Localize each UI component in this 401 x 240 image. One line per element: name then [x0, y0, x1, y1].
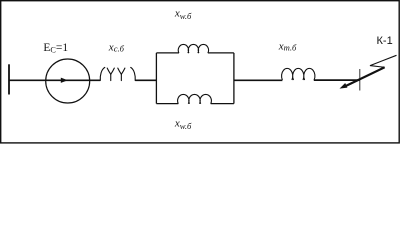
bottom branch wire right: [211, 103, 234, 105]
parallel box right vertical: [233, 53, 235, 104]
lightning bolt thick stroke: [346, 67, 385, 86]
svg-text:К-1: К-1: [377, 35, 393, 47]
border frame: [1, 1, 400, 143]
parallel box left vertical: [155, 53, 157, 104]
bus bar (system): [8, 64, 10, 94]
wire bus to coil1: [9, 79, 100, 81]
top branch wire left: [156, 52, 179, 54]
bolt arrowhead: [340, 83, 348, 89]
wire coil1 to box: [135, 79, 156, 81]
svg-text:ЕС=1: ЕС=1: [43, 42, 68, 55]
bottom branch coil x_w.b: [178, 94, 212, 103]
svg-text:хс.б: хс.б: [108, 41, 125, 53]
reactor coil1 x_c.b: [100, 67, 135, 80]
wire coil3 to fault: [314, 79, 360, 81]
lightning bolt thin zigzag: [370, 55, 397, 67]
svg-text:хт.б: хт.б: [278, 40, 297, 52]
bottom branch wire left: [156, 103, 178, 105]
top branch coil x_w.b: [178, 44, 208, 53]
transformer coil3 x_t.b: [282, 68, 315, 80]
generator G circle: [46, 59, 90, 103]
top branch wire right: [208, 52, 234, 54]
wire box to coil3: [234, 79, 283, 81]
arrowhead on wire: [61, 78, 68, 83]
fault location tick: [359, 69, 361, 91]
